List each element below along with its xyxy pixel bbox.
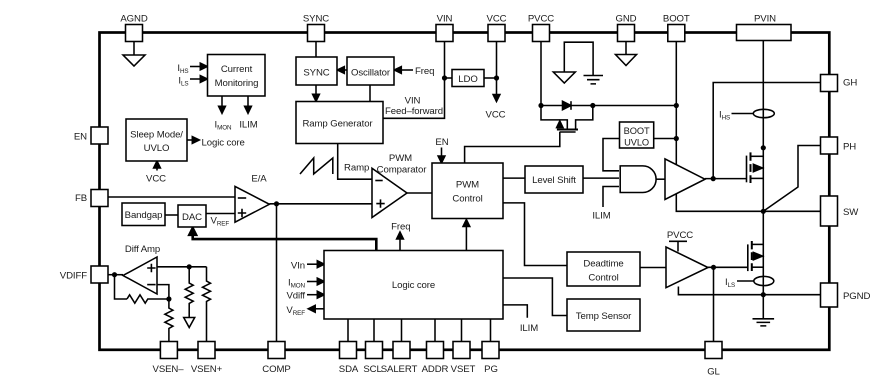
pin PG bbox=[482, 342, 499, 359]
arrow VIn into Logic core bbox=[307, 263, 321, 265]
svg-text:SW: SW bbox=[843, 207, 859, 218]
svg-text:Feed–forward: Feed–forward bbox=[385, 106, 443, 117]
block DAC bbox=[178, 205, 206, 227]
wire driver output to high-side gate bbox=[705, 178, 747, 180]
block Deadtime Control bbox=[567, 252, 640, 286]
block Logic core bbox=[324, 251, 503, 320]
wire low-side driver output to gate bbox=[708, 266, 748, 268]
wire FB to E/A inverting input bbox=[108, 196, 236, 198]
wire diode cathode to BOOT line bbox=[571, 105, 676, 107]
arrow IMON out of Current Monitoring bbox=[221, 96, 223, 110]
arrow VREF out of Logic core bbox=[312, 308, 325, 310]
wire E/A output to PWM comparator bbox=[269, 203, 372, 205]
pin VIN bbox=[436, 25, 453, 42]
svg-text:Current: Current bbox=[221, 64, 253, 75]
wire logic core to SDA pin bbox=[347, 319, 349, 342]
arrow VCC into Sleep Mode bbox=[156, 165, 158, 171]
wire DAC to E/A non-inverting input bbox=[206, 213, 235, 215]
wire ILS label to sensor bbox=[737, 280, 754, 282]
junction HS FET drain bbox=[761, 145, 766, 150]
svg-text:EN: EN bbox=[74, 132, 87, 143]
pin PVCC bbox=[533, 25, 550, 42]
wire LDO input from VIN line bbox=[445, 77, 453, 79]
current sense ILS ellipse bbox=[754, 276, 774, 285]
svg-text:VIN: VIN bbox=[405, 96, 421, 107]
pin GND bbox=[618, 25, 635, 42]
resistor to VSEN- bbox=[165, 292, 173, 342]
wire low-side driver output to GL pin bbox=[713, 267, 715, 341]
wire logic core to PG pin bbox=[490, 319, 492, 342]
svg-text:ILIM: ILIM bbox=[592, 211, 610, 222]
svg-text:VCC: VCC bbox=[487, 14, 507, 25]
earth ground symbol bbox=[584, 76, 604, 84]
svg-text:FB: FB bbox=[75, 193, 87, 204]
pin PGND bbox=[821, 283, 838, 307]
svg-text:PG: PG bbox=[484, 364, 498, 375]
low-side FET Q2 source stub bbox=[752, 266, 764, 268]
resistor feedback horizontal bbox=[127, 295, 169, 303]
svg-text:PH: PH bbox=[843, 142, 856, 153]
junction LS FET source bbox=[761, 292, 766, 297]
wire LDO output to VCC line bbox=[484, 77, 497, 79]
svg-text:Level Shift: Level Shift bbox=[532, 175, 576, 186]
ground AGND symbol triangle bbox=[616, 55, 637, 66]
wire bootstrap diode anode bbox=[541, 105, 563, 107]
junction PVCC/diode bbox=[538, 103, 543, 108]
svg-text:VCC: VCC bbox=[486, 110, 506, 121]
junction Diff Amp output bbox=[112, 272, 117, 277]
wire GND pin to ground symbol bbox=[625, 42, 627, 55]
block Bandgap bbox=[122, 203, 165, 226]
wire Oscillator to Ramp Generator bbox=[369, 85, 371, 102]
block PWM Control bbox=[432, 163, 503, 219]
svg-text:VSEN+: VSEN+ bbox=[191, 364, 223, 375]
wire VIN feed-forward bbox=[383, 42, 445, 119]
bold VREF bus from Logic core to DAC bbox=[193, 231, 377, 251]
wire Bandgap to DAC bbox=[165, 214, 178, 216]
wire BOOT pin down to high-side driver bbox=[675, 42, 677, 165]
wire PVIN down through power FETs bbox=[762, 41, 764, 295]
block Oscillator bbox=[347, 57, 394, 85]
svg-text:SYNC: SYNC bbox=[303, 14, 329, 25]
svg-text:Bandgap: Bandgap bbox=[125, 210, 163, 221]
svg-text:Ramp: Ramp bbox=[344, 163, 369, 174]
wire Deadtime Control to low-side driver bbox=[640, 267, 666, 269]
wire driver return to PGND rail bbox=[678, 287, 820, 295]
resistor to VSEN+ bbox=[203, 267, 211, 342]
pin GL bbox=[705, 342, 722, 359]
svg-text:Logic core: Logic core bbox=[202, 138, 245, 149]
svg-text:Monitoring: Monitoring bbox=[215, 78, 259, 89]
pass transistor gate wire to PWM control bbox=[465, 132, 560, 163]
wire ILIM input to AND gate bbox=[603, 187, 619, 208]
Diff Amp plus sign bbox=[147, 264, 155, 272]
wire logic core to SALERT pin bbox=[401, 319, 403, 342]
arrow ILS into Current Monitoring bbox=[190, 78, 204, 80]
svg-text:LDO: LDO bbox=[458, 74, 477, 85]
block BOOT UVLO bbox=[620, 122, 654, 148]
wire EN arrow into PWM control bbox=[441, 148, 443, 161]
arrow Oscillator to SYNC block bbox=[340, 69, 347, 71]
wire logic core to SCL pin bbox=[373, 319, 375, 342]
wire Diff Amp feedback bbox=[115, 275, 128, 299]
svg-text:VSET: VSET bbox=[451, 364, 476, 375]
low-side FET Q2 body arrow bbox=[753, 252, 762, 259]
svg-text:GND: GND bbox=[615, 14, 636, 25]
wire PWM control to Deadtime Control bbox=[503, 203, 567, 266]
block Current Monitoring bbox=[208, 55, 266, 97]
junction HS driver output bbox=[711, 176, 716, 181]
svg-text:GH: GH bbox=[843, 78, 857, 89]
wire logic core to VSET pin bbox=[461, 319, 463, 342]
wire SYNC block to Ramp Generator bbox=[315, 85, 317, 98]
wire PH pin bend bbox=[763, 146, 820, 212]
svg-text:SYNC: SYNC bbox=[303, 68, 329, 79]
block SYNC bbox=[296, 57, 337, 85]
svg-text:COMP: COMP bbox=[262, 364, 290, 375]
high-side FET Q1 drain stub bbox=[751, 155, 764, 157]
svg-text:SCL: SCL bbox=[363, 364, 382, 375]
low-side FET Q2 drain stub bbox=[752, 243, 764, 245]
pin VSEN+ bbox=[198, 342, 215, 359]
driver high-side buffer bbox=[665, 159, 705, 200]
wire SYNC pin to SYNC block bbox=[315, 42, 317, 58]
ground open arrow under resistor bbox=[184, 318, 195, 328]
pin SDA bbox=[340, 342, 357, 359]
svg-text:VSEN–: VSEN– bbox=[153, 364, 185, 375]
PWM comparator minus sign bbox=[375, 180, 382, 182]
pass transistor gate bar bbox=[560, 131, 576, 133]
svg-text:Ramp Generator: Ramp Generator bbox=[302, 119, 373, 130]
Diff Amp minus sign bbox=[147, 284, 155, 286]
arrow VCC down bbox=[493, 95, 500, 102]
arrow Vdiff into Logic core bbox=[307, 294, 321, 296]
wire Freq arrow above Logic core bbox=[399, 236, 401, 251]
block Level Shift bbox=[525, 166, 583, 193]
arrow ILIM out of Current Monitoring bbox=[247, 96, 249, 110]
svg-text:Freq: Freq bbox=[415, 66, 434, 77]
E/A minus sign bbox=[238, 197, 246, 199]
svg-text:PVCC: PVCC bbox=[528, 14, 554, 25]
arrow IMON into Logic core bbox=[307, 281, 321, 283]
ramp sawtooth symbol bbox=[300, 158, 333, 174]
wire BOOT UVLO output to AND gate bbox=[603, 139, 620, 171]
diode D1 bootstrap bbox=[563, 101, 572, 110]
pin ADDR bbox=[427, 342, 444, 359]
svg-text:UVLO: UVLO bbox=[624, 138, 649, 148]
svg-text:Sleep Mode/: Sleep Mode/ bbox=[130, 130, 183, 141]
wire COMP pin riser bbox=[276, 204, 278, 342]
svg-text:ILIM: ILIM bbox=[239, 120, 257, 131]
pin SYNC bbox=[308, 25, 325, 42]
svg-text:VDIFF: VDIFF bbox=[60, 271, 87, 282]
svg-text:Freq: Freq bbox=[391, 222, 410, 233]
pin VSEN- bbox=[160, 342, 177, 359]
wire Logic core to PWM control bbox=[465, 223, 467, 251]
high-side FET Q1 channel bbox=[750, 152, 752, 183]
svg-text:Vdiff: Vdiff bbox=[286, 291, 305, 302]
ground AGND open triangle bbox=[123, 55, 145, 66]
svg-text:PVCC: PVCC bbox=[667, 230, 693, 241]
svg-text:GL: GL bbox=[707, 367, 720, 378]
resistor middle to ground arrow bbox=[185, 267, 193, 317]
block Temp Sensor bbox=[567, 299, 640, 331]
pass transistor body arrow bbox=[557, 121, 563, 128]
wire BOOT UVLO tap bbox=[654, 138, 677, 140]
pass transistor channel bar bbox=[557, 129, 578, 131]
pin PH bbox=[821, 137, 838, 154]
svg-text:ILIM: ILIM bbox=[520, 323, 538, 334]
svg-text:PWM: PWM bbox=[389, 153, 412, 164]
svg-text:SDA: SDA bbox=[339, 364, 359, 375]
junction E/A output bbox=[274, 201, 279, 206]
pass transistor Q-LDO right leg bbox=[576, 106, 593, 129]
arrow Sleep Mode to Logic core bbox=[187, 139, 196, 141]
arrow IHS into Current Monitoring bbox=[190, 66, 204, 68]
svg-text:Deadtime: Deadtime bbox=[583, 259, 623, 270]
wire Ramp Generator to comparator bbox=[338, 144, 372, 180]
wire VCC pin down bbox=[496, 42, 498, 98]
wire Diff Amp non-inverting network bbox=[157, 266, 207, 268]
wire Diff Amp inverting input bbox=[157, 285, 169, 292]
floating ground pair bracket bbox=[564, 42, 593, 75]
junction switch node bbox=[761, 209, 766, 214]
svg-text:BOOT: BOOT bbox=[624, 126, 650, 136]
pin VDIFF bbox=[91, 266, 108, 283]
wire logic core to ADDR pin bbox=[434, 319, 436, 342]
svg-text:PGND: PGND bbox=[843, 291, 870, 302]
wire PVCC tick for low-side driver bbox=[669, 241, 687, 251]
svg-text:Control: Control bbox=[452, 194, 482, 205]
pass transistor Q-LDO left leg bbox=[541, 106, 567, 129]
driver low-side buffer bbox=[666, 247, 708, 288]
svg-text:E/A: E/A bbox=[251, 174, 267, 185]
pin VCC bbox=[488, 25, 505, 42]
pin SCL bbox=[366, 342, 383, 359]
op-amp E/A error amplifier bbox=[235, 186, 269, 222]
pin FB bbox=[91, 190, 108, 207]
junction Diff Amp plus divider bbox=[187, 264, 192, 269]
svg-text:Diff Amp: Diff Amp bbox=[125, 244, 160, 255]
svg-text:Temp Sensor: Temp Sensor bbox=[576, 311, 632, 322]
svg-text:EN: EN bbox=[435, 137, 448, 148]
svg-text:PVIN: PVIN bbox=[754, 14, 776, 25]
junction LS driver output bbox=[711, 265, 716, 270]
low-side FET Q2 channel bbox=[751, 241, 753, 271]
ground open triangle bbox=[553, 72, 575, 83]
E/A plus sign bbox=[238, 209, 246, 217]
svg-text:SALERT: SALERT bbox=[381, 364, 418, 375]
wire Level Shift to AND gate bbox=[583, 177, 619, 179]
pin BOOT bbox=[668, 25, 685, 42]
svg-text:AGND: AGND bbox=[120, 14, 147, 25]
junction BOOT line top bbox=[674, 103, 679, 108]
PWM comparator plus sign bbox=[376, 199, 384, 207]
power ground symbol bbox=[753, 295, 775, 326]
junction diode/pass FET bbox=[590, 103, 595, 108]
junction VIN/LDO bbox=[442, 75, 447, 80]
pin PVIN bbox=[737, 25, 792, 41]
svg-text:Logic core: Logic core bbox=[392, 280, 435, 291]
pin SW bbox=[821, 196, 838, 226]
wire PVCC pin down to bootstrap diode node bbox=[540, 42, 542, 106]
junction Diff Amp feedback node bbox=[166, 296, 171, 301]
comparator PWM bbox=[372, 168, 407, 217]
low-side FET Q2 gate bar bbox=[747, 244, 749, 271]
wire switch node from driver return bbox=[676, 194, 820, 211]
svg-text:PWM: PWM bbox=[456, 180, 479, 191]
svg-text:DAC: DAC bbox=[182, 212, 202, 223]
wire Logic core ILIM stub bbox=[503, 305, 527, 318]
wire PWM comparator output bbox=[407, 192, 432, 194]
pin SALERT bbox=[393, 342, 410, 359]
junction BOOT UVLO tap bbox=[674, 136, 679, 141]
wire Logic core to Temp Sensor bbox=[503, 278, 567, 316]
pin COMP bbox=[268, 342, 285, 359]
pin AGND bbox=[126, 25, 143, 42]
AND gate U-HS bbox=[620, 166, 656, 193]
svg-text:Control: Control bbox=[588, 273, 618, 284]
svg-text:VCC: VCC bbox=[146, 174, 166, 185]
wire IHS label to sensor bbox=[732, 113, 754, 115]
high-side FET Q1 source stub bbox=[751, 177, 764, 179]
pin VSET bbox=[453, 342, 470, 359]
wire PWM control to Level Shift bbox=[503, 177, 525, 179]
chip boundary bbox=[100, 33, 830, 350]
svg-text:BOOT: BOOT bbox=[663, 14, 690, 25]
svg-text:Comparator: Comparator bbox=[377, 165, 428, 176]
high-side FET Q1 body arrow bbox=[753, 164, 762, 171]
op-amp Diff Amp bbox=[123, 257, 157, 294]
svg-text:Oscillator: Oscillator bbox=[351, 68, 391, 79]
svg-text:ADDR: ADDR bbox=[422, 364, 449, 375]
current sense IHS ellipse bbox=[753, 109, 774, 117]
block Ramp Generator bbox=[296, 102, 383, 144]
svg-text:UVLO: UVLO bbox=[144, 143, 170, 154]
wire driver output up and to GH pin bbox=[713, 83, 820, 179]
wire VDIFF to Diff Amp output bbox=[108, 274, 124, 276]
junction LDO/VCC bbox=[494, 75, 499, 80]
svg-text:VIn: VIn bbox=[291, 260, 305, 271]
block LDO bbox=[452, 70, 484, 87]
pin EN bbox=[91, 127, 108, 144]
wire AGND pin to ground symbol bbox=[133, 42, 135, 56]
high-side FET Q1 gate bar bbox=[746, 156, 748, 183]
block Sleep Mode/UVLO bbox=[126, 119, 187, 161]
svg-text:VIN: VIN bbox=[437, 14, 453, 25]
arrow Freq into Oscillator bbox=[397, 69, 413, 71]
pin GH bbox=[821, 75, 838, 92]
wire AND gate output to driver bbox=[656, 178, 665, 180]
